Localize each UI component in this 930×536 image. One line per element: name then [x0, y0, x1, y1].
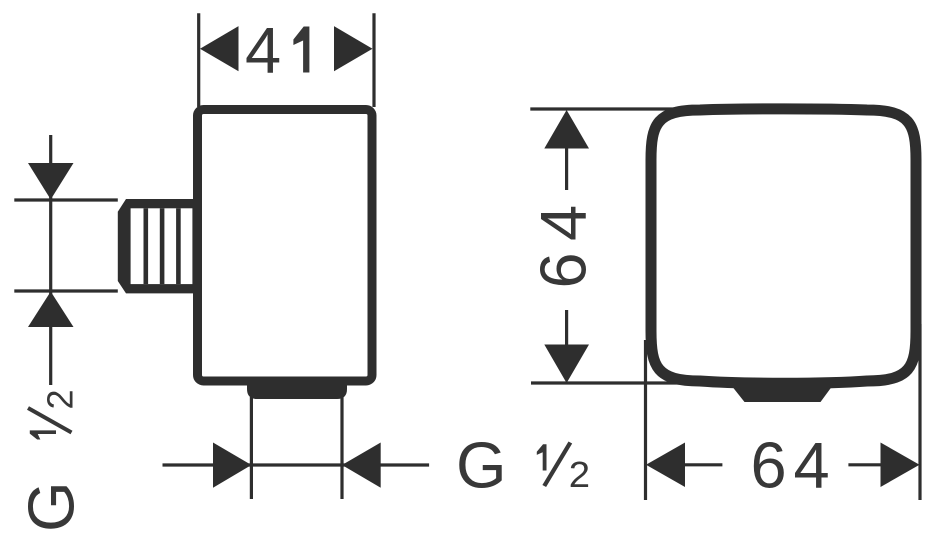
extension line left (64 horizontal dim)	[644, 340, 647, 500]
arrowhead up (thread dim)	[28, 292, 74, 328]
extension line right (41 dim)	[372, 13, 375, 107]
thread dimension line vertical (G 1/2, side view)	[49, 135, 52, 385]
arrowhead down (thread dim)	[28, 163, 74, 200]
arrowhead right (64 horizontal dim)	[881, 443, 920, 488]
rotated text G 1/2 (thread dim)	[15, 389, 88, 532]
svg-text:2: 2	[40, 389, 81, 409]
arrowhead left (64 horizontal dim)	[646, 443, 685, 488]
dimension line segments vertical (64 dim)	[565, 149, 568, 191]
bottom outlet nipple (side view)	[247, 377, 347, 399]
rounded square escutcheon (front view)	[651, 109, 916, 383]
main body rectangle (side view)	[198, 110, 373, 382]
arrowhead left (41 dim)	[200, 26, 239, 71]
tick line bottom (64 vertical dim)	[531, 381, 686, 384]
arrowhead right-pointing (outlet dim)	[213, 443, 251, 488]
svg-text:G: G	[15, 481, 88, 532]
arrowhead left-pointing (outlet dim)	[342, 443, 381, 488]
tick line bottom (thread dim)	[14, 289, 118, 292]
extension line right (outlet dim)	[340, 397, 343, 499]
extension line right (64 horizontal dim)	[918, 324, 921, 500]
text G 1/2 (outlet size)	[456, 429, 590, 502]
extension line left (41 dim)	[197, 13, 200, 107]
tick line top (64 vertical dim)	[530, 107, 688, 110]
dimension text 64 (horizontal)	[751, 429, 830, 502]
svg-text:6: 6	[751, 429, 787, 502]
rotated text 64 (vertical dim)	[527, 205, 600, 289]
tick line top (thread dim)	[14, 198, 118, 201]
outlet bump (front view)	[731, 381, 833, 402]
svg-text:6: 6	[527, 252, 600, 288]
extension line left (outlet dim)	[250, 397, 253, 499]
svg-text:4: 4	[794, 429, 830, 502]
arrowhead down (64 vertical dim)	[544, 345, 589, 384]
arrowhead up (64 vertical dim)	[544, 110, 589, 149]
svg-text:4: 4	[527, 205, 600, 241]
arrowhead right (41 dim)	[334, 26, 373, 71]
threaded connector (G 1/2 inlet, side view)	[118, 199, 197, 293]
svg-text:4: 4	[245, 14, 281, 87]
outlet dimension line (G 1/2 bottom, side view)	[163, 463, 430, 466]
svg-text:2: 2	[569, 454, 590, 495]
dimension line segments horizontal (64 dim)	[685, 463, 722, 466]
svg-text:G: G	[456, 429, 507, 502]
